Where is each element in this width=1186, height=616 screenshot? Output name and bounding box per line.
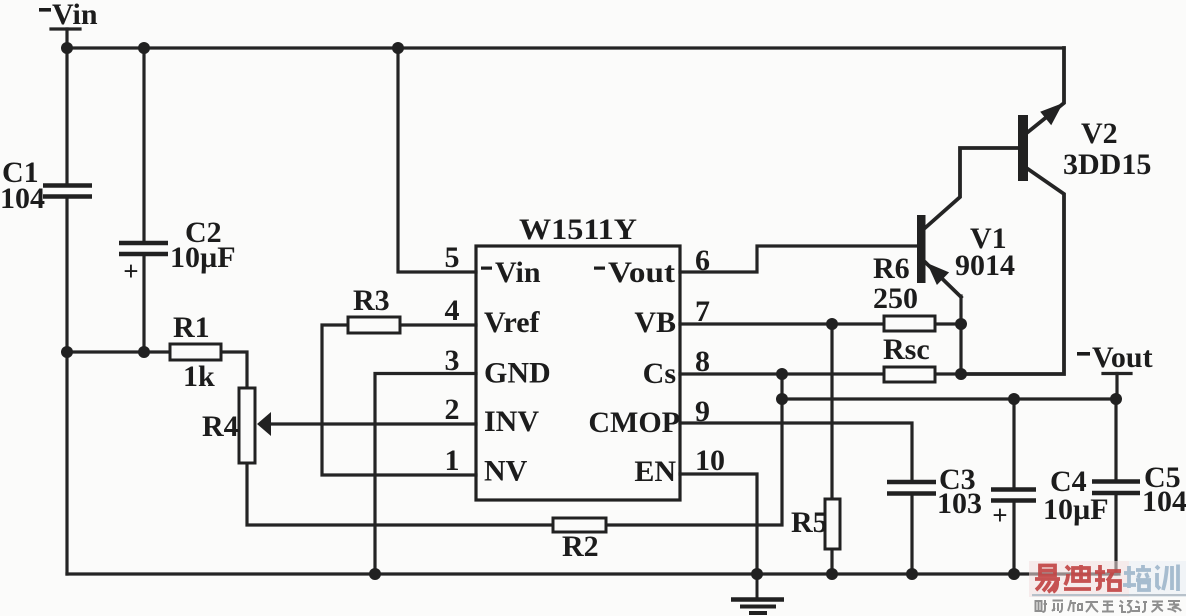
svg-text:3: 3 [445,344,460,377]
IC pin NV label [484,455,528,488]
capacitor C5 label [1142,461,1186,518]
resistor R3 label [353,284,390,317]
resistor Rsc label [883,333,930,366]
svg-text:Vref: Vref [484,306,541,339]
wire top rail [67,46,1064,49]
wire C4 upper [1012,399,1015,488]
capacitor C5 [1092,482,1140,494]
wire pin2 INV to R4 wiper [268,422,476,425]
transistor V1 emitter arrow [927,263,949,285]
svg-text:10µF: 10µF [170,241,236,274]
svg-text:1: 1 [445,444,460,477]
watermark logo 易迪拓培训 (drawn glyphs) [1035,565,1121,592]
IC U1 title W1511Y [519,213,637,246]
wire output rail y399 [782,397,1117,400]
svg-text:10: 10 [695,444,725,477]
svg-text:Vin: Vin [52,0,98,31]
svg-text:GND: GND [484,357,551,390]
IC pin EN label [634,455,676,488]
IC pin CMOP label [588,406,680,439]
svg-text:VB: VB [634,306,676,339]
svg-text:3DD15: 3DD15 [1063,148,1151,181]
svg-text:9014: 9014 [955,249,1015,282]
IC pin VB label [634,306,676,339]
svg-text:R1: R1 [173,311,210,344]
capacitor C4 label [992,465,1108,530]
svg-text:104: 104 [0,182,45,215]
wire -Vout terminal drop [1115,374,1118,400]
capacitor C4 [991,490,1036,501]
svg-text:+: + [992,500,1007,530]
resistor R1 label [173,311,215,393]
resistor R2 label [562,530,599,563]
wire R6 right to node [935,322,961,325]
IC pin 3 number [445,344,460,377]
svg-text:R5: R5 [791,506,828,539]
IC pin 7 number [695,295,710,328]
wire bottom rail [67,572,1119,575]
wire C4 lower [1012,502,1015,574]
wire V1 emitter to node [925,262,961,297]
IC pin 10 number [695,444,725,477]
capacitor C3 [887,482,936,494]
wire R2 right up to Cs node [606,399,782,525]
ground [731,574,784,613]
resistor R1 [170,344,221,360]
node -Vout label [1077,341,1153,374]
transistor V2 emitter arrow [1040,103,1063,125]
svg-text:2: 2 [445,393,460,426]
transistor V1 label [955,222,1015,282]
potentiometer R4 wiper arrow [257,412,271,436]
IC pin Vref label [484,306,541,339]
svg-text:NV: NV [484,455,528,488]
resistor R3 [348,317,400,333]
transistor V2 label [1063,117,1151,181]
svg-text:1k: 1k [183,360,215,393]
transistor V1 bar [917,215,926,283]
svg-text:5: 5 [445,241,460,274]
wire -Vin terminal down to C1 top [65,29,68,183]
wire V1 collector up to V2 base [925,148,1018,228]
node -Vout terminal tick [1103,372,1131,375]
wire C3 bottom to rail [910,494,913,574]
resistor R6 [884,316,935,331]
svg-text:10µF: 10µF [1043,493,1109,526]
wire pin3 GND to bottom rail [375,374,476,575]
wire C5 lower [1114,494,1117,574]
IC pin 6 number [695,244,710,277]
wire pin10 EN down to rail [680,474,757,574]
svg-text:6: 6 [695,244,710,277]
wire R1 to R4 top [221,352,247,388]
wire C5 upper [1114,399,1117,480]
wire node R6-Rsc vertical [959,296,962,374]
transistor V2 bar [1018,115,1028,181]
resistor R5 label [791,506,828,539]
IC pin -Vin label [481,256,541,289]
svg-text:R3: R3 [353,284,390,317]
IC pin Cs label [643,357,676,390]
watermark divider [1032,594,1186,596]
svg-text:Rsc: Rsc [883,333,930,366]
wire pin9 CMOP to C3 [680,423,912,481]
wire pin8 Cs to Rsc [680,372,884,375]
resistor R6 label [873,252,918,315]
wire V2 emitter up to top rail corner [1028,48,1064,132]
IC pin 8 number [695,345,710,378]
watermark background halo [1029,561,1129,597]
wire Rsc right to node [935,372,961,375]
wire C1 bottom down left vertical [65,198,68,574]
IC pin INV label [484,405,539,438]
svg-text:CMOP: CMOP [588,406,680,439]
IC pin GND label [484,357,551,390]
capacitor C2 label [123,216,235,286]
wire pin7 VB to R6 [680,322,884,325]
IC pin -Vout label [594,256,675,289]
svg-text:7: 7 [695,295,710,328]
wire pin6 to V1 base [680,246,917,272]
svg-text:Vin: Vin [495,256,541,289]
resistor R2 [553,518,606,532]
IC pin 1 number [445,444,460,477]
svg-text:EN: EN [634,455,676,488]
IC U1 W1511Y body [476,246,680,500]
svg-text:W1511Y: W1511Y [519,213,637,246]
wire C2 branch lower [142,256,145,352]
wire pin5 branch from top rail [398,48,476,272]
svg-text:R2: R2 [562,530,599,563]
svg-text:104: 104 [1142,485,1186,518]
svg-text:Vout: Vout [1092,341,1153,374]
node -Vin label [39,0,98,31]
IC pin 5 number [445,241,460,274]
capacitor C3 label [937,463,982,520]
resistor R5 [825,499,840,549]
svg-text:V2: V2 [1081,117,1118,150]
wire C2 branch upper [142,48,145,241]
wire R4 bottom to R2 left [247,463,553,525]
IC pin 2 number [445,393,460,426]
wire V2 collector down and left to Rsc node [961,169,1064,374]
IC pin 4 number [445,294,460,327]
svg-text:8: 8 [695,345,710,378]
wire node A horizontal to R1 [67,350,170,353]
svg-text:4: 4 [445,294,460,327]
wire R5 bottom to rail [830,549,833,574]
svg-text:R6: R6 [873,252,910,285]
svg-text:250: 250 [873,282,918,315]
capacitor C1 [43,186,92,197]
svg-text:+: + [123,256,138,286]
wire R3 right to pin4 [400,323,476,326]
watermark slogan 射频和天线设计专家 (drawn glyphs) [1036,600,1182,612]
svg-text:9: 9 [695,395,710,428]
svg-text:INV: INV [484,405,539,438]
svg-text:Vout: Vout [608,256,675,289]
potentiometer R4 label [202,410,239,443]
potentiometer R4 body [239,388,255,463]
wire NV vertical R3 left [322,325,476,475]
svg-text:R4: R4 [202,410,239,443]
capacitor C1 label [0,156,45,215]
svg-text:103: 103 [937,487,982,520]
resistor Rsc [884,367,935,382]
wire VB node down to R5 top [830,324,833,499]
wire Cs node drop [780,374,783,399]
capacitor C2 [119,243,168,254]
node -Vin terminal tick [51,27,80,30]
svg-text:Cs: Cs [643,357,676,390]
IC pin 9 number [695,395,710,428]
